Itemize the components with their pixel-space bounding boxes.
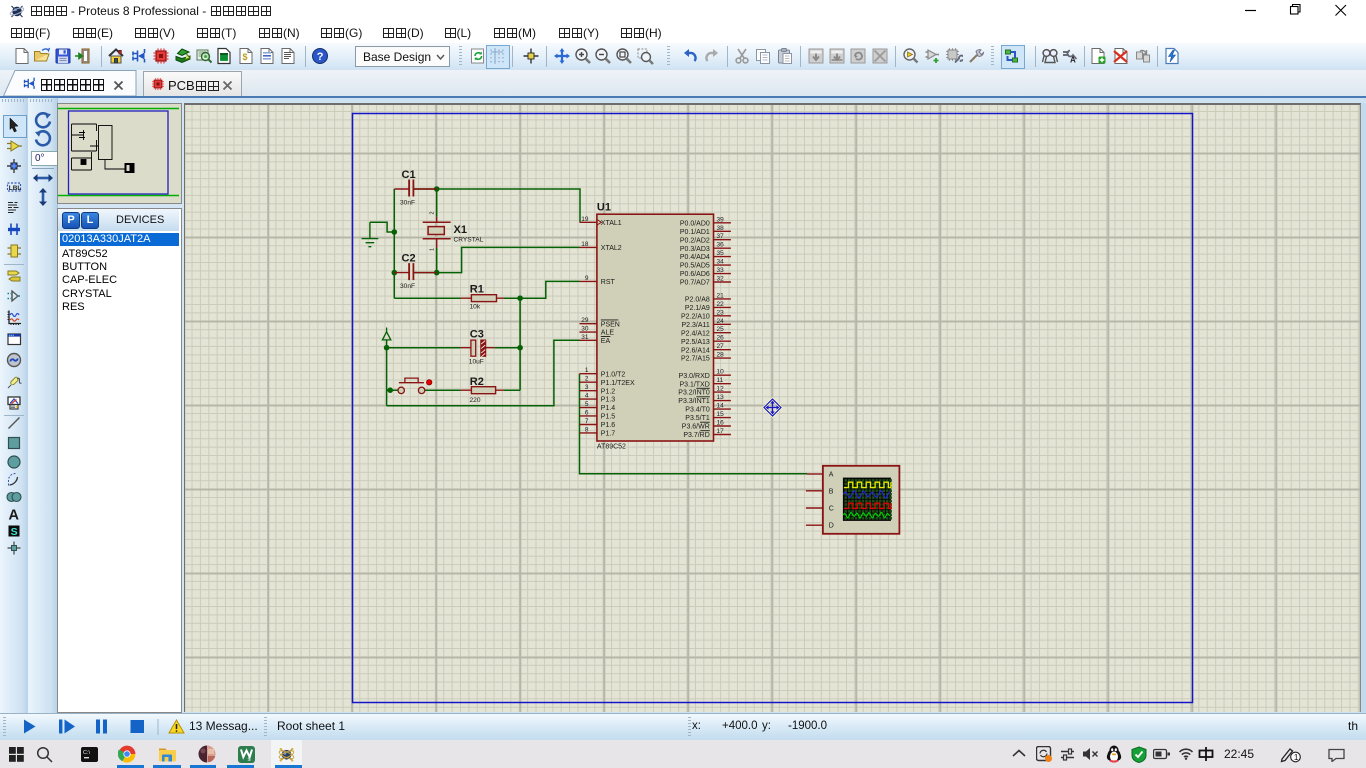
svg-text:1: 1 <box>585 367 589 374</box>
oscilloscope body <box>823 466 900 534</box>
svg-text:P0.4/AD4: P0.4/AD4 <box>680 254 710 261</box>
U1 pin 2 (P1.1/T2EX) <box>580 376 635 387</box>
U1 pin 19 (XTAL1) <box>580 216 622 227</box>
wire: C2 to XTAL2 net <box>413 247 579 272</box>
U1 pin 9 (RST) <box>580 275 616 286</box>
crystal X1 <box>423 217 467 248</box>
U1 pin 23 (P2.2/A10) <box>681 309 731 320</box>
U1 pin 5 (P1.4) <box>580 401 616 412</box>
svg-text:17: 17 <box>717 428 725 435</box>
svg-text:2: 2 <box>430 211 436 214</box>
svg-text:1: 1 <box>1294 752 1299 762</box>
svg-text:C: C <box>829 506 834 513</box>
svg-text:P1.4: P1.4 <box>601 405 616 412</box>
U1 pin 38 (P0.1/AD1) <box>680 225 731 236</box>
svg-text:8: 8 <box>585 426 589 433</box>
svg-text:RST: RST <box>601 279 616 286</box>
U1 pin 35 (P0.4/AD4) <box>680 250 731 261</box>
U1 pin 7 (P1.6) <box>580 418 616 429</box>
svg-text:16: 16 <box>717 420 725 427</box>
U1 pin 6 (P1.5) <box>580 409 616 420</box>
svg-text:P1.2: P1.2 <box>601 388 616 395</box>
pin number 2 (X1 top) <box>430 211 436 214</box>
waveform channel D (green sine) <box>843 512 889 518</box>
wire: P1.0 to oscilloscope channel A <box>580 374 808 474</box>
svg-text:5: 5 <box>585 401 589 408</box>
svg-text:P1.5: P1.5 <box>601 414 616 421</box>
svg-text:26: 26 <box>717 335 725 342</box>
svg-text:P0.6/AD6: P0.6/AD6 <box>680 271 710 278</box>
junction power node <box>384 345 390 351</box>
wire: C3 right to reset node <box>495 347 520 349</box>
svg-text:R1: R1 <box>470 284 484 296</box>
svg-text:32: 32 <box>717 276 725 283</box>
U1 pin 29 (PSEN) <box>580 317 620 328</box>
wire: C3 left to power rail <box>387 347 461 349</box>
wire: button left stub <box>387 389 398 391</box>
svg-text:38: 38 <box>717 225 725 232</box>
resistor R2 <box>461 376 504 394</box>
U1 pin 10 (P3.0/RXD) <box>679 369 731 380</box>
capacitor C1 <box>394 169 436 197</box>
svg-text:18: 18 <box>581 241 589 248</box>
svg-text:P3.1/TXD: P3.1/TXD <box>679 381 709 388</box>
svg-text:22: 22 <box>717 301 725 308</box>
ground <box>362 222 379 246</box>
svg-text:P1.0/T2: P1.0/T2 <box>601 371 626 378</box>
svg-text:P2.0/A8: P2.0/A8 <box>685 297 710 304</box>
svg-text:XTAL1: XTAL1 <box>601 220 622 227</box>
svg-text:33: 33 <box>717 267 725 274</box>
microcontroller U1 body <box>597 202 714 442</box>
svg-text:15: 15 <box>717 411 725 418</box>
svg-text:P2.3/A11: P2.3/A11 <box>682 322 710 329</box>
wire: bottom rail to EA <box>387 340 580 406</box>
power terminal +5V <box>382 328 390 340</box>
svg-text:A: A <box>1070 56 1076 65</box>
move cursor <box>764 399 781 416</box>
value AT89C52 (U1) <box>597 444 626 451</box>
svg-text:7: 7 <box>585 418 589 425</box>
svg-text:CRYSTAL: CRYSTAL <box>454 237 484 244</box>
svg-text:3: 3 <box>585 384 589 391</box>
wire: R1 left to rail <box>394 297 460 299</box>
U1 pin 31 (EA) <box>580 334 611 345</box>
U1 pin 8 (P1.7) <box>580 426 616 437</box>
svg-text:31: 31 <box>581 334 589 341</box>
junction C2 left <box>392 270 398 276</box>
svg-text:9: 9 <box>585 275 589 282</box>
svg-text:2: 2 <box>585 376 589 383</box>
U1 pin 24 (P2.3/A11) <box>682 318 731 329</box>
waveform channel B (blue sine) <box>843 491 889 498</box>
svg-text:C3: C3 <box>470 328 484 340</box>
wire: C1 to XTAL1 net <box>413 189 580 222</box>
svg-text:29: 29 <box>581 317 589 324</box>
svg-text:25: 25 <box>717 326 725 333</box>
oscilloscope channel A pin <box>807 472 834 479</box>
U1 pin 17 (P3.7/RD) <box>683 428 731 439</box>
svg-text:A: A <box>9 508 20 523</box>
U1 pin 22 (P2.1/A9) <box>685 301 731 312</box>
svg-text:P1.7: P1.7 <box>601 431 616 438</box>
svg-text:P0.3/AD3: P0.3/AD3 <box>680 246 710 253</box>
svg-text:$: $ <box>243 52 248 62</box>
svg-text:P3.2/INT0: P3.2/INT0 <box>678 390 710 397</box>
wire: button right to R2 <box>425 389 461 391</box>
junction reset node <box>517 295 523 301</box>
svg-text:P0.1/AD1: P0.1/AD1 <box>680 229 710 236</box>
svg-text:220: 220 <box>470 397 481 404</box>
U1 pin 11 (P3.1/TXD) <box>679 377 730 388</box>
U1 pin 32 (P0.7/AD7) <box>680 276 731 287</box>
capacitor C2 <box>394 253 436 281</box>
svg-text:P1.1/T2EX: P1.1/T2EX <box>601 380 635 387</box>
svg-text:30nF: 30nF <box>400 200 415 207</box>
svg-text:B: B <box>829 488 834 495</box>
junction C3 right <box>517 345 523 351</box>
svg-text:1: 1 <box>430 248 436 251</box>
svg-text:4: 4 <box>585 393 589 400</box>
wire: ground branch <box>370 222 394 232</box>
waveform channel C (red square) <box>844 503 891 508</box>
svg-text:P0.5/AD5: P0.5/AD5 <box>680 263 710 270</box>
oscilloscope channel D pin <box>806 523 834 530</box>
value 10uF (C3) <box>469 359 484 366</box>
svg-text:X1: X1 <box>454 224 467 236</box>
svg-text:37: 37 <box>717 233 725 240</box>
svg-text:34: 34 <box>717 259 725 266</box>
sheet border frame <box>353 114 1193 703</box>
svg-text:S: S <box>11 526 18 538</box>
svg-text:12: 12 <box>717 386 725 393</box>
U1 pin 12 (P3.2/INT0) <box>678 386 731 397</box>
svg-text:A: A <box>829 472 834 479</box>
value 30nF (C1) <box>400 200 415 207</box>
svg-text:11: 11 <box>717 377 724 384</box>
svg-text:?: ? <box>317 51 324 63</box>
U1 pin 13 (P3.3/INT1) <box>678 394 731 405</box>
svg-text:C:\: C:\ <box>83 750 91 756</box>
U1 pin 16 (P3.6/WR) <box>682 420 731 431</box>
svg-text:P3.7/RD: P3.7/RD <box>683 432 709 439</box>
U1 pin 21 (P2.0/A8) <box>685 292 731 303</box>
svg-text:10uF: 10uF <box>469 359 484 366</box>
capacitor C3 <box>461 328 495 356</box>
oscilloscope screen <box>843 478 892 521</box>
svg-text:39: 39 <box>717 216 725 223</box>
svg-text:P1.6: P1.6 <box>601 422 616 429</box>
svg-text:P2.5/A13: P2.5/A13 <box>681 339 710 346</box>
svg-text:21: 21 <box>717 292 725 299</box>
svg-text:ALE: ALE <box>601 330 615 337</box>
svg-text:LBL: LBL <box>9 184 22 191</box>
junction XTAL1 net <box>434 186 440 192</box>
wire: left vertical rail C1/gnd/C2/R1 <box>393 189 395 298</box>
svg-text:P2.2/A10: P2.2/A10 <box>681 313 710 320</box>
wire: R1 right to RST <box>504 281 580 298</box>
svg-text:P3.6/WR: P3.6/WR <box>682 424 710 431</box>
svg-text:10: 10 <box>717 369 725 376</box>
U1 pin 27 (P2.6/A14) <box>681 343 731 354</box>
svg-text:6: 6 <box>585 409 589 416</box>
svg-text:U1: U1 <box>597 202 611 214</box>
svg-text:27: 27 <box>717 343 725 350</box>
waveform channel A (yellow square) <box>844 482 891 487</box>
U1 pin 30 (ALE) <box>580 326 615 337</box>
wire: R2 right to reset node <box>504 389 520 391</box>
U1 pin 18 (XTAL2) <box>580 241 622 252</box>
U1 pin 4 (P1.3) <box>580 393 616 404</box>
svg-text:P2.6/A14: P2.6/A14 <box>681 347 710 354</box>
svg-text:P3.4/T0: P3.4/T0 <box>685 407 710 414</box>
U1 pin 37 (P0.2/AD2) <box>680 233 731 244</box>
pin number 1 (X1 bottom) <box>430 248 436 251</box>
svg-text:10k: 10k <box>470 304 481 311</box>
svg-text:P3.0/RXD: P3.0/RXD <box>679 373 710 380</box>
svg-text:PSEN: PSEN <box>601 321 620 328</box>
svg-text:EA: EA <box>601 338 611 345</box>
resistor R1 <box>461 284 504 302</box>
svg-text:35: 35 <box>717 250 725 257</box>
svg-text:P3.3/INT1: P3.3/INT1 <box>678 398 710 405</box>
svg-text:AT89C52: AT89C52 <box>597 444 626 451</box>
svg-text:P0.0/AD0: P0.0/AD0 <box>680 220 710 227</box>
value 10k (R1) <box>470 304 481 311</box>
U1 pin 28 (P2.7/A15) <box>681 352 731 363</box>
value 220 (R2) <box>470 397 481 404</box>
junction ground rail <box>392 229 398 235</box>
oscilloscope channel B pin <box>806 488 834 495</box>
U1 pin 3 (P1.2) <box>580 384 616 395</box>
wire: crystal top branch <box>436 189 438 217</box>
U1 pin 15 (P3.5/T1) <box>685 411 731 422</box>
value 30nF (C2) <box>400 283 415 290</box>
svg-text:13: 13 <box>717 394 725 401</box>
svg-text:P2.1/A9: P2.1/A9 <box>685 305 710 312</box>
svg-text:28: 28 <box>717 352 725 359</box>
svg-text:R2: R2 <box>470 376 484 388</box>
U1 pin 36 (P0.3/AD3) <box>680 242 731 253</box>
svg-text:36: 36 <box>717 242 725 249</box>
junction XTAL2 net <box>434 270 440 276</box>
wire: reset node vertical (R1/C3/R2) <box>519 298 521 390</box>
svg-text:P1.3: P1.3 <box>601 397 616 404</box>
value CRYSTAL (X1) <box>454 237 484 244</box>
U1 pin 25 (P2.4/A12) <box>681 326 731 337</box>
svg-text:P2.7/A15: P2.7/A15 <box>681 356 710 363</box>
wire: crystal bottom branch <box>436 248 438 273</box>
svg-text:D: D <box>829 523 834 530</box>
junction button left <box>387 387 393 393</box>
svg-text:XTAL2: XTAL2 <box>601 245 622 252</box>
U1 pin 14 (P3.4/T0) <box>685 403 731 414</box>
U1 pin 34 (P0.5/AD5) <box>680 259 731 270</box>
svg-text:19: 19 <box>581 216 589 223</box>
svg-text:P3.5/T1: P3.5/T1 <box>685 415 710 422</box>
svg-text:P2.4/A12: P2.4/A12 <box>681 330 710 337</box>
U1 pin 39 (P0.0/AD0) <box>680 216 731 227</box>
U1 pin 1 (P1.0/T2) <box>580 367 626 378</box>
wire: power rail down to button <box>386 341 388 406</box>
svg-text:24: 24 <box>717 318 725 325</box>
U1 pin 33 (P0.6/AD6) <box>680 267 731 278</box>
svg-text:23: 23 <box>717 309 725 316</box>
U1 pin 26 (P2.5/A13) <box>681 335 731 346</box>
svg-text:P0.7/AD7: P0.7/AD7 <box>680 280 710 287</box>
svg-text:P0.2/AD2: P0.2/AD2 <box>680 237 710 244</box>
oscilloscope channel C pin <box>806 506 834 513</box>
button actuator dot <box>427 380 432 385</box>
svg-text:30: 30 <box>581 326 589 333</box>
svg-text:C1: C1 <box>402 169 416 181</box>
svg-text:C2: C2 <box>402 253 416 265</box>
svg-text:14: 14 <box>717 403 725 410</box>
svg-text:30nF: 30nF <box>400 283 415 290</box>
button (push switch) <box>398 378 425 393</box>
